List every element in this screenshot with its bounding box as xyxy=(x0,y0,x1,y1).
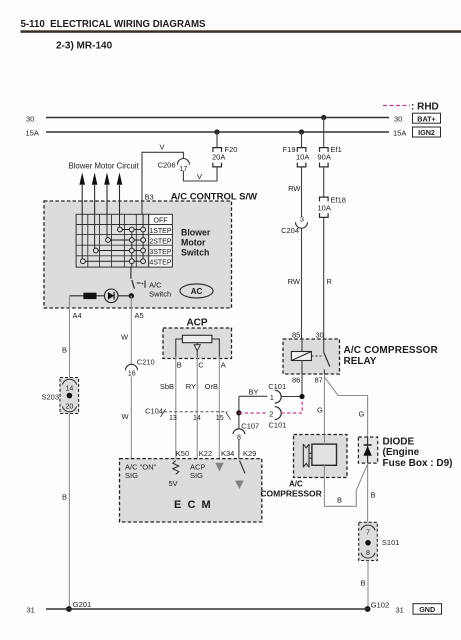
ground node G201 xyxy=(66,600,91,612)
A/C CONTROL S/W box xyxy=(44,192,257,309)
wire V from F20 to C206 xyxy=(183,167,217,181)
connector C204 pin 3 xyxy=(281,217,307,236)
fuse F19 xyxy=(283,145,310,167)
wire B S101 to G102 xyxy=(361,561,369,610)
svg-text:A4: A4 xyxy=(73,311,82,320)
svg-text:B3: B3 xyxy=(145,193,154,202)
svg-text:BAT+: BAT+ xyxy=(417,114,435,123)
svg-text:15A: 15A xyxy=(393,128,406,137)
relay switch xyxy=(324,339,330,374)
connector C101 pin 2 (RHD) xyxy=(239,400,302,430)
svg-text:SIG: SIG xyxy=(125,471,138,480)
label Blower Motor Switch xyxy=(181,228,211,258)
ECM box xyxy=(120,459,262,522)
svg-text:G: G xyxy=(317,406,323,415)
wire B diode to S101 xyxy=(368,463,376,522)
wire relay86 to C101 junction xyxy=(301,374,303,397)
ECM ACP SIG label xyxy=(190,463,205,481)
wire RW F19 to C204 xyxy=(288,167,301,217)
svg-text:10A: 10A xyxy=(296,153,309,162)
wire lamp row xyxy=(70,295,132,297)
svg-text:Switch: Switch xyxy=(181,248,209,258)
svg-text:20A: 20A xyxy=(212,153,225,162)
svg-text:GND: GND xyxy=(419,605,435,614)
svg-text:A/C COMPRESSOR: A/C COMPRESSOR xyxy=(344,345,439,356)
svg-text:DIODE: DIODE xyxy=(383,437,415,448)
blower motor circuit arrows xyxy=(69,162,140,214)
svg-text:W: W xyxy=(121,332,129,341)
wire blower feed col1 xyxy=(81,214,83,261)
wire feeds into switch table xyxy=(82,201,142,214)
svg-text:10A: 10A xyxy=(318,204,331,213)
wire blower feed col4 xyxy=(119,214,121,229)
svg-text:B: B xyxy=(62,493,67,502)
svg-text:7: 7 xyxy=(366,530,370,537)
svg-text:K34: K34 xyxy=(221,449,234,458)
svg-text:20: 20 xyxy=(66,404,74,411)
svg-text:1: 1 xyxy=(270,393,274,402)
svg-text:31: 31 xyxy=(27,606,35,615)
svg-text:C: C xyxy=(198,361,204,370)
wire B3 column xyxy=(142,214,144,261)
wire BY C107 to K29 xyxy=(239,396,242,460)
ground node G102 xyxy=(365,600,389,612)
ECM pin labels xyxy=(176,449,257,458)
svg-text:OFF: OFF xyxy=(154,218,168,225)
wire table to A/C switch xyxy=(130,267,132,279)
svg-text:B: B xyxy=(62,346,67,355)
svg-text:C104: C104 xyxy=(145,407,163,416)
svg-text:Blower Motor Circuit: Blower Motor Circuit xyxy=(69,162,140,171)
svg-text:3STEP: 3STEP xyxy=(149,249,172,256)
svg-text:RW: RW xyxy=(288,277,301,286)
ECM 5V pull-up resistor xyxy=(169,461,179,489)
A/C compressor box xyxy=(260,435,347,499)
svg-text:V: V xyxy=(197,172,202,181)
wire B compressor to diode xyxy=(324,464,367,507)
svg-text:13: 13 xyxy=(169,415,177,422)
svg-text:B: B xyxy=(361,579,366,588)
svg-text:2STEP: 2STEP xyxy=(149,238,172,245)
wire BY horizontal to C101 xyxy=(239,388,267,397)
svg-text:SIG: SIG xyxy=(190,471,203,480)
svg-text:A: A xyxy=(221,361,226,370)
svg-text:RW: RW xyxy=(288,184,301,193)
blower motor switch table xyxy=(76,214,172,267)
svg-text:S203: S203 xyxy=(41,393,59,402)
fuse F20 xyxy=(212,145,237,167)
legend RHD dashed xyxy=(383,102,439,113)
svg-text:E C M: E C M xyxy=(174,499,211,511)
svg-text:15A: 15A xyxy=(26,129,39,138)
junction dot 86 xyxy=(299,394,304,399)
junction dot F20 branch xyxy=(214,129,219,134)
svg-text:90A: 90A xyxy=(318,153,331,162)
svg-text:Ef1: Ef1 xyxy=(331,145,342,154)
wire A5 / W to C210 xyxy=(121,296,144,365)
svg-text:ACP: ACP xyxy=(186,317,207,328)
svg-text:(Engine: (Engine xyxy=(383,447,420,458)
svg-text:5-110 ELECTRICAL WIRING DIAGR: 5-110 ELECTRICAL WIRING DIAGRAMS xyxy=(21,19,207,30)
splice S101 xyxy=(359,522,400,560)
switch row contacts 4STEP xyxy=(81,259,146,264)
ACP box xyxy=(163,317,232,358)
relay linkage dashed xyxy=(311,355,321,357)
wire RY xyxy=(186,357,197,459)
svg-text:B: B xyxy=(371,491,376,500)
svg-text:C101: C101 xyxy=(268,382,286,391)
wire G inside compressor box xyxy=(323,435,325,445)
wire F19 drop xyxy=(301,132,303,148)
relay coil xyxy=(291,339,311,374)
svg-text:3: 3 xyxy=(300,217,304,224)
svg-text:1STEP: 1STEP xyxy=(149,228,172,235)
svg-text:Switch: Switch xyxy=(149,290,171,299)
junction dot A5 xyxy=(129,293,134,298)
svg-text:OrB: OrB xyxy=(205,382,218,391)
compressor clutch coil xyxy=(303,444,336,467)
relay pin labels 86 87 xyxy=(292,376,323,385)
connector C104 pins 13 14 15 xyxy=(145,407,231,422)
wire Ef1 drop xyxy=(323,118,325,148)
page header title xyxy=(21,19,461,52)
svg-text:17: 17 xyxy=(180,166,188,173)
wire G relay87 to compressor xyxy=(317,374,324,435)
wire B S203 to G201 xyxy=(62,414,69,610)
fuse Ef1 xyxy=(318,145,342,167)
svg-text:G: G xyxy=(359,410,365,419)
svg-text:8: 8 xyxy=(366,550,370,557)
wire Ef1 to Ef18 xyxy=(323,167,325,197)
switch row contacts 3STEP xyxy=(93,248,145,253)
wire blower feed col3 xyxy=(106,214,108,240)
svg-text:A5: A5 xyxy=(135,311,144,320)
svg-text:14: 14 xyxy=(66,386,74,393)
svg-text:A/C: A/C xyxy=(149,281,162,290)
svg-text:2: 2 xyxy=(269,409,273,418)
svg-text:Ef18: Ef18 xyxy=(331,196,346,205)
junction dot Ef1 branch xyxy=(321,115,326,120)
svg-text:86: 86 xyxy=(292,376,300,385)
svg-text:K22: K22 xyxy=(199,449,212,458)
fuse Ef18 xyxy=(318,196,346,218)
A/C compressor relay box xyxy=(283,339,438,374)
svg-text:85: 85 xyxy=(292,331,300,340)
wire V from C206 to B3 xyxy=(142,143,183,215)
oval AC indicator xyxy=(180,284,213,298)
potentiometer in ACP xyxy=(176,335,220,357)
wire OrB xyxy=(205,357,220,459)
svg-text:S101: S101 xyxy=(382,538,400,547)
svg-text:AC: AC xyxy=(191,287,203,296)
diode symbol xyxy=(363,437,371,463)
svg-text:Motor: Motor xyxy=(181,238,206,248)
svg-text:A/C: A/C xyxy=(289,480,303,489)
resistor (filled) xyxy=(83,293,96,299)
wire R Ef18 to relay pin30 xyxy=(316,217,333,339)
svg-text:W: W xyxy=(122,412,130,421)
svg-text:30: 30 xyxy=(26,115,34,124)
terminal box GND xyxy=(413,604,442,615)
svg-text:COMPRESSOR: COMPRESSOR xyxy=(260,489,321,499)
svg-text:30: 30 xyxy=(316,331,324,340)
svg-text:Blower: Blower xyxy=(181,228,211,238)
splice S203 xyxy=(41,378,78,414)
svg-text:RELAY: RELAY xyxy=(344,356,377,367)
svg-text:87: 87 xyxy=(315,376,323,385)
junction dot F19 branch xyxy=(299,129,304,134)
bus line 31 ground xyxy=(27,606,404,615)
connector C101 pin 1 xyxy=(268,382,302,403)
switch row contacts 1STEP xyxy=(118,227,146,232)
svg-text:4STEP: 4STEP xyxy=(149,259,172,266)
svg-text:: RHD: : RHD xyxy=(411,102,439,113)
connector C107 pin 8 xyxy=(233,422,259,442)
wire W C210 to ECM xyxy=(122,377,132,459)
wire blower feed col2 xyxy=(94,214,96,250)
svg-text:C204: C204 xyxy=(281,226,299,235)
svg-text:A/C CONTROL S/W: A/C CONTROL S/W xyxy=(171,192,257,203)
terminal box BAT+ xyxy=(413,113,441,123)
connector C210 pin 16 xyxy=(126,358,155,378)
svg-text:F20: F20 xyxy=(225,145,238,154)
svg-text:BY: BY xyxy=(249,388,259,397)
wire RW C204 to relay pin85 xyxy=(288,229,302,340)
svg-text:C206: C206 xyxy=(158,161,176,170)
svg-text:V: V xyxy=(160,143,165,152)
svg-text:F19: F19 xyxy=(283,145,296,154)
wire A4 / B to S203 xyxy=(62,296,82,378)
svg-text:15: 15 xyxy=(216,415,224,422)
svg-text:K29: K29 xyxy=(243,449,256,458)
svg-text:SbB: SbB xyxy=(160,382,174,391)
svg-text:Fuse Box : D9): Fuse Box : D9) xyxy=(383,458,453,469)
svg-text:16: 16 xyxy=(128,371,136,378)
svg-text:C210: C210 xyxy=(137,358,155,367)
svg-text:B: B xyxy=(177,361,182,370)
svg-text:14: 14 xyxy=(193,415,201,422)
svg-text:C107: C107 xyxy=(241,422,259,431)
LED indicator lamp xyxy=(104,289,118,303)
svg-text:G102: G102 xyxy=(371,600,389,609)
ECM K34 arrow xyxy=(215,463,223,472)
bus line 30 xyxy=(26,114,402,123)
svg-text:8: 8 xyxy=(237,434,241,441)
svg-text:30: 30 xyxy=(394,114,402,123)
svg-text:IGN2: IGN2 xyxy=(418,128,435,137)
svg-text:5V: 5V xyxy=(169,479,178,488)
connector C206 pin 17 xyxy=(158,159,190,173)
A/C switch blade xyxy=(132,280,171,299)
ECM K29 switch blade and arrow xyxy=(235,461,245,490)
wire switch common column xyxy=(131,230,133,268)
wire G relay87 branch to diode xyxy=(324,377,367,437)
wire F20 drop xyxy=(216,132,218,148)
svg-text:R: R xyxy=(327,277,333,286)
svg-text:K50: K50 xyxy=(176,449,189,458)
wire SbB xyxy=(160,357,176,459)
ECM A/C ON SIG label xyxy=(125,463,156,481)
svg-text:2-3) MR-140: 2-3) MR-140 xyxy=(56,41,113,52)
bus line 15A xyxy=(26,128,407,137)
diode box D9 xyxy=(358,437,452,469)
switch row contacts 2STEP xyxy=(106,238,146,243)
svg-text:G201: G201 xyxy=(73,600,91,609)
svg-text:B: B xyxy=(337,496,342,505)
ACP pin letters xyxy=(177,361,226,370)
junction dot BY xyxy=(236,410,241,415)
terminal box IGN2 xyxy=(413,127,441,137)
svg-text:31: 31 xyxy=(396,606,404,615)
svg-text:C101: C101 xyxy=(269,421,287,430)
svg-text:RY: RY xyxy=(186,382,196,391)
